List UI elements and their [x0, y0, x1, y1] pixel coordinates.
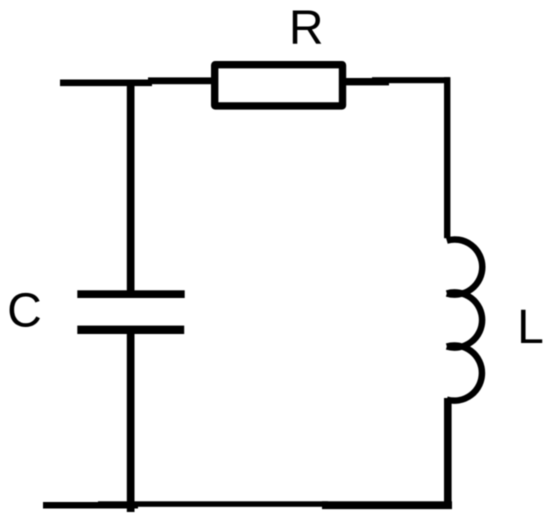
- svg-text:C: C: [7, 284, 42, 337]
- svg-text:L: L: [517, 301, 544, 354]
- svg-text:R: R: [289, 2, 324, 55]
